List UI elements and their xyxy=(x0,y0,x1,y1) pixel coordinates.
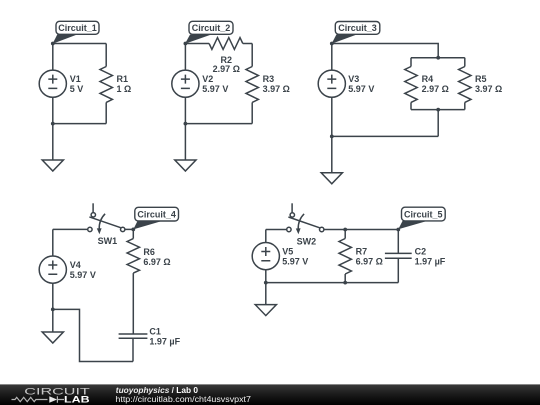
svg-text:V5: V5 xyxy=(282,246,293,256)
svg-text:3.97 Ω: 3.97 Ω xyxy=(475,84,502,94)
ground C3 xyxy=(321,136,342,183)
svg-text:C1: C1 xyxy=(149,327,161,337)
node A3 xyxy=(330,42,334,46)
switch SW2 xyxy=(287,203,324,234)
label R4 xyxy=(422,74,449,94)
node B3 xyxy=(330,135,334,139)
node A4 xyxy=(131,228,135,232)
wire switch to node C4 xyxy=(125,228,133,230)
svg-text:Circuit_2: Circuit_2 xyxy=(192,23,231,33)
svg-text:R3: R3 xyxy=(263,74,275,84)
wire switch to C2 branch xyxy=(324,229,398,231)
node label Circuit_2 xyxy=(185,21,233,43)
wire R6 top lead xyxy=(132,229,134,238)
label V2 xyxy=(202,74,228,94)
svg-text:C2: C2 xyxy=(415,246,427,256)
resistor R5 xyxy=(459,67,471,103)
node A1 xyxy=(51,42,55,46)
node A5 xyxy=(343,228,347,232)
wire parallel bottom rail xyxy=(411,109,465,111)
wire top C3 xyxy=(332,44,438,58)
ground C4 xyxy=(42,309,63,343)
ground C1 xyxy=(42,124,63,171)
voltage source V5 xyxy=(252,230,279,283)
resistor R4 xyxy=(405,67,417,103)
ground C2 xyxy=(175,124,196,171)
switch SW1 xyxy=(88,203,125,234)
node A2 xyxy=(184,42,188,46)
node label Circuit_5 xyxy=(398,207,445,229)
label R6 xyxy=(143,247,170,267)
wire bottom C3 xyxy=(332,135,438,137)
label V3 xyxy=(348,74,374,94)
wire top left C5 xyxy=(266,229,287,231)
capacitor C2 xyxy=(385,253,412,282)
node B2 xyxy=(184,122,188,126)
wire top left C2 xyxy=(185,43,209,45)
node label Circuit_3 xyxy=(332,22,380,44)
wire bottom C5 xyxy=(266,282,399,284)
voltage source V4 xyxy=(39,229,66,309)
svg-text:Circuit_5: Circuit_5 xyxy=(404,210,443,220)
svg-text:2.97 Ω: 2.97 Ω xyxy=(422,84,449,94)
label V1 xyxy=(70,74,84,94)
wire C3 down xyxy=(437,110,439,137)
voltage source V3 xyxy=(318,44,345,137)
logo diode xyxy=(49,396,64,403)
label V4 xyxy=(70,260,96,280)
label V5 xyxy=(282,246,308,266)
wire top right C2 xyxy=(243,43,252,45)
svg-text:V3: V3 xyxy=(348,74,359,84)
svg-text:Circuit_4: Circuit_4 xyxy=(137,210,176,220)
label R1 xyxy=(117,74,132,94)
svg-text:5 V: 5 V xyxy=(70,84,84,94)
svg-text:http://circuitlab.com/cht4usvs: http://circuitlab.com/cht4usvsvpxt7 xyxy=(115,394,251,404)
resistor R7 xyxy=(339,239,351,275)
label C1 xyxy=(149,327,180,347)
svg-text:R5: R5 xyxy=(475,74,487,84)
svg-text:Circuit_1: Circuit_1 xyxy=(58,23,97,33)
label R5 xyxy=(475,74,502,94)
wire bottom C2 xyxy=(185,123,252,125)
wire bottom C1 xyxy=(53,123,106,125)
wire R6 to C1 xyxy=(132,273,134,334)
svg-text:R6: R6 xyxy=(143,247,155,257)
node B1 xyxy=(51,122,55,126)
node C3 bottom junction xyxy=(436,108,440,112)
wire right bottom C2 xyxy=(251,102,253,123)
wire C2 top lead xyxy=(397,230,399,254)
svg-text:2.97 Ω: 2.97 Ω xyxy=(213,64,240,74)
resistor R6 xyxy=(127,239,139,274)
svg-text:1.97 µF: 1.97 µF xyxy=(415,256,446,266)
svg-text:R7: R7 xyxy=(356,247,368,257)
svg-text:5.97 V: 5.97 V xyxy=(202,84,228,94)
node label Circuit_4 xyxy=(133,207,178,229)
wire R5 bottom lead xyxy=(464,102,466,109)
label R2 xyxy=(213,55,240,74)
wire top left C4 xyxy=(53,228,88,230)
node D5 xyxy=(396,228,400,232)
svg-text:5.97 V: 5.97 V xyxy=(70,270,96,280)
wire top C1 xyxy=(53,43,106,45)
svg-text:R4: R4 xyxy=(422,74,434,84)
node label Circuit_1 xyxy=(53,21,99,43)
wire R5 top lead xyxy=(464,58,466,67)
svg-text:3.97 Ω: 3.97 Ω xyxy=(263,84,290,94)
label R7 xyxy=(356,247,383,267)
svg-text:5.97 V: 5.97 V xyxy=(282,256,308,266)
wire R7 top lead xyxy=(344,230,346,239)
label R3 xyxy=(263,74,290,94)
svg-text:Circuit_3: Circuit_3 xyxy=(338,23,377,33)
svg-text:V2: V2 xyxy=(202,74,213,84)
wire bottom C4 xyxy=(53,309,133,361)
svg-text:V4: V4 xyxy=(70,260,81,270)
voltage source V1 xyxy=(39,44,66,124)
svg-text:6.97 Ω: 6.97 Ω xyxy=(143,257,170,267)
svg-text:6.97 Ω: 6.97 Ω xyxy=(356,257,383,267)
label C2 xyxy=(415,246,446,266)
svg-text:SW1: SW1 xyxy=(98,236,118,246)
svg-text:SW2: SW2 xyxy=(297,236,317,246)
capacitor C1 xyxy=(119,334,148,362)
voltage source V2 xyxy=(172,44,199,124)
wire R4 top lead xyxy=(410,58,412,67)
svg-text:1.97 µF: 1.97 µF xyxy=(149,337,180,347)
wire R7 bottom lead xyxy=(344,274,346,283)
svg-text:LAB: LAB xyxy=(64,394,90,404)
node C3 top junction xyxy=(436,56,440,60)
resistor R2 xyxy=(209,38,243,50)
wire right bottom C1 xyxy=(105,102,107,123)
resistor R1 xyxy=(100,67,112,103)
node E5 xyxy=(343,281,347,285)
wire R4 bottom lead xyxy=(410,102,412,109)
svg-text:5.97 V: 5.97 V xyxy=(348,84,374,94)
resistor R3 xyxy=(246,67,258,103)
ground C5 xyxy=(255,283,276,316)
node B4 xyxy=(51,308,55,312)
svg-text:V1: V1 xyxy=(70,74,81,84)
logo resistor zigzag xyxy=(12,397,48,401)
node B5 xyxy=(264,281,268,285)
wire right top C2 xyxy=(251,44,253,67)
svg-text:R1: R1 xyxy=(117,74,129,84)
wire parallel top rail xyxy=(411,57,465,59)
wire right top C1 xyxy=(105,44,107,67)
svg-text:1 Ω: 1 Ω xyxy=(117,84,132,94)
